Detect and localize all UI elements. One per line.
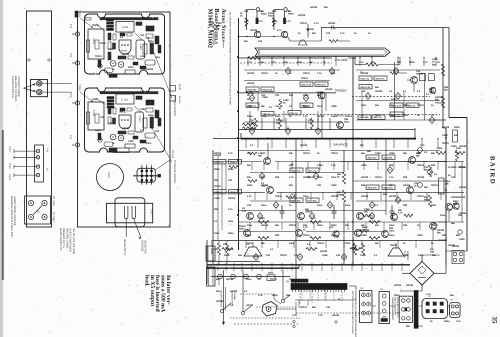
- comb connector: [291, 279, 308, 282]
- transistor TR118 mid: [337, 122, 344, 129]
- svg-text:R118 56k: R118 56k: [392, 113, 402, 116]
- svg-text:R316: R316: [303, 105, 309, 108]
- rail 210: [238, 210, 296, 212]
- parts board B right: [146, 100, 154, 105]
- svg-text:GP230: GP230: [435, 96, 443, 99]
- svg-text:GP230: GP230: [214, 152, 222, 155]
- resistor chips board A row2: [118, 56, 126, 59]
- svg-text:GP230: GP230: [437, 229, 445, 232]
- svg-text:R316: R316: [437, 147, 443, 150]
- svg-text:R316: R316: [100, 42, 106, 45]
- svg-text:C308: C308: [389, 152, 395, 155]
- svg-text:100u: 100u: [289, 242, 295, 245]
- svg-text:R30: R30: [272, 10, 277, 13]
- resistor boxes mid 198s: [290, 198, 303, 202]
- chips board B cluster1: [108, 107, 111, 114]
- svg-text:C31: C31: [266, 254, 271, 257]
- svg-text:GP230: GP230: [389, 195, 397, 198]
- DIN socket housing: [31, 80, 48, 97]
- svg-text:R321 1k: R321 1k: [408, 104, 417, 107]
- svg-text:100u: 100u: [317, 204, 323, 207]
- svg-text:4.7k: 4.7k: [286, 20, 291, 23]
- svg-text:GP230: GP230: [226, 278, 234, 281]
- mains pin P105: [28, 200, 33, 205]
- svg-text:C308: C308: [258, 10, 264, 13]
- svg-text:C310 .01: C310 .01: [361, 77, 370, 80]
- right margin vertical resistors: [428, 165, 431, 177]
- svg-text:TK43: TK43: [8, 174, 11, 180]
- svg-text:100u: 100u: [331, 176, 337, 179]
- balance heavy bus: [241, 138, 415, 140]
- svg-text:4.7k: 4.7k: [426, 293, 431, 296]
- svg-text:GP230: GP230: [261, 184, 269, 187]
- driver transistor TR326: [355, 230, 362, 237]
- svg-text:TREBLE: TREBLE: [335, 89, 347, 93]
- svg-text:C308: C308: [453, 203, 459, 206]
- driver transistor TR327: [391, 214, 398, 221]
- svg-text:GP230: GP230: [303, 176, 311, 179]
- svg-text:GP230: GP230: [246, 304, 254, 307]
- bus stub comb: [217, 266, 219, 271]
- transistor TR116: [281, 31, 287, 37]
- printed board B outline: [85, 88, 165, 152]
- rail 181: [353, 180, 446, 182]
- svg-text:4.7k: 4.7k: [318, 314, 323, 317]
- board B top edge band: [100, 92, 158, 94]
- capacitor can C101 on board A: [88, 29, 104, 59]
- svg-text:100u: 100u: [418, 254, 424, 257]
- rail 120 right: [356, 119, 446, 121]
- svg-text:BALANCE CONTROL: BALANCE CONTROL: [14, 76, 17, 102]
- svg-text:C308: C308: [322, 254, 328, 257]
- svg-text:100u: 100u: [246, 278, 252, 281]
- mains pin P108: [42, 214, 47, 219]
- detector diode: [307, 24, 309, 38]
- svg-text:100u: 100u: [148, 114, 154, 117]
- svg-text:C308: C308: [108, 122, 114, 125]
- left margin small speaker a: [206, 246, 215, 261]
- svg-text:R30: R30: [403, 176, 408, 179]
- svg-text:TR311: TR311: [300, 22, 307, 25]
- transistor TR115: [254, 31, 260, 37]
- pre-bus vertical resistors right: [353, 243, 356, 255]
- svg-text:R316: R316: [275, 115, 281, 118]
- svg-text:TR311: TR311: [275, 195, 282, 198]
- svg-text:TR311: TR311: [92, 24, 99, 27]
- svg-text:100u: 100u: [247, 242, 253, 245]
- svg-text:C308: C308: [360, 254, 366, 257]
- svg-text:C130: C130: [92, 110, 95, 117]
- voltage selector plug: [137, 168, 155, 182]
- svg-text:R30: R30: [344, 118, 349, 121]
- strip dashed drops: [301, 292, 303, 302]
- tone network rail: [239, 129, 415, 131]
- svg-text:GP230: GP230: [375, 90, 383, 93]
- mains pin P106: [42, 200, 47, 205]
- svg-text:100u: 100u: [345, 204, 351, 207]
- treble zigzag: [246, 92, 254, 95]
- svg-text:C108: C108: [122, 26, 129, 29]
- rail 200: [250, 200, 296, 202]
- svg-text:R316 47k: R316 47k: [368, 186, 378, 189]
- svg-text:R316: R316: [444, 320, 450, 323]
- svg-text:TR311: TR311: [331, 234, 338, 237]
- leader board A to red socket label: [148, 38, 172, 98]
- bias boxes TR117: [420, 74, 426, 81]
- svg-text:TR311: TR311: [305, 211, 312, 214]
- resistor R117 top: [329, 40, 338, 43]
- bottom right corner cluster: [453, 252, 457, 256]
- stage rail 160: [213, 161, 262, 163]
- svg-text:4.7k: 4.7k: [286, 10, 291, 13]
- right column rail extensions: [446, 161, 464, 163]
- svg-text:C101: C101: [92, 38, 95, 45]
- dashed switch linkage rows: [256, 306, 296, 308]
- svg-text:TO P105: TO P105: [52, 196, 55, 206]
- svg-text:TK3(1): TK3(1): [78, 84, 81, 91]
- transistor cans board A: [110, 61, 116, 67]
- left margin resistor row 2: [213, 190, 226, 194]
- right stage resistors row: [366, 155, 379, 159]
- volume right resistor: [366, 63, 378, 66]
- vertical drop comb lower: [249, 222, 251, 230]
- dashed linkage horizontal: [240, 293, 274, 295]
- resistor R216 boxed: [300, 82, 313, 86]
- page binding edge: [0, 0, 3, 337]
- svg-text:C31: C31: [424, 166, 429, 169]
- svg-text:R30: R30: [389, 164, 394, 167]
- svg-text:TR311: TR311: [442, 142, 449, 145]
- svg-text:TR311: TR311: [417, 195, 424, 198]
- output cable banner: [255, 48, 390, 56]
- svg-text:TR311: TR311: [300, 306, 307, 309]
- svg-text:100u: 100u: [303, 195, 309, 198]
- svg-text:C308: C308: [331, 105, 337, 108]
- svg-text:4.7k: 4.7k: [423, 61, 428, 64]
- svg-text:C31: C31: [275, 94, 280, 97]
- svg-text:GP230: GP230: [122, 127, 130, 130]
- terminal TK1 on chassis edge: [75, 32, 79, 36]
- svg-text:C308: C308: [128, 140, 134, 143]
- svg-text:C 143: C 143: [121, 99, 128, 102]
- svg-text:100u: 100u: [431, 204, 437, 207]
- svg-text:R316: R316: [454, 126, 460, 129]
- svg-text:100u: 100u: [228, 248, 234, 251]
- svg-text:C31: C31: [242, 210, 247, 213]
- svg-text:4.7k: 4.7k: [216, 25, 221, 28]
- svg-text:GP230: GP230: [361, 176, 369, 179]
- pre-bus rail 261: [207, 260, 260, 262]
- svg-text:R316 47k: R316 47k: [317, 83, 327, 86]
- svg-text:TR311: TR311: [303, 152, 310, 155]
- svg-text:ON/OFF SWITCH: ON/OFF SWITCH: [220, 290, 223, 307]
- tone transistor TR203: [318, 92, 325, 99]
- svg-text:C31: C31: [326, 306, 331, 309]
- svg-text:SELECTOR: SELECTOR: [144, 240, 147, 254]
- svg-text:R214 2.2k: R214 2.2k: [361, 86, 371, 89]
- dial lamp 4: [257, 274, 262, 279]
- svg-text:R316: R316: [331, 224, 337, 227]
- board A top edge component band: [100, 18, 158, 20]
- left margin small speaker b: [207, 267, 216, 286]
- mid vertical wires right: [394, 62, 396, 120]
- vertical drop comb mid: [245, 139, 247, 148]
- lamp rail return: [289, 278, 291, 280]
- svg-text:TR311: TR311: [239, 225, 246, 228]
- svg-text:C308: C308: [92, 98, 98, 101]
- svg-text:CARRY MAINS VOLTAGE: CARRY MAINS VOLTAGE: [13, 196, 16, 226]
- bridge rectifier B30C: [410, 262, 434, 286]
- svg-text:GP230: GP230: [146, 68, 154, 71]
- svg-text:R30: R30: [431, 164, 436, 167]
- driver transistor TR322: [244, 230, 251, 237]
- svg-text:SPEAKER SOCKETS: SPEAKER SOCKETS: [396, 297, 399, 318]
- dial lamp 2: [231, 274, 236, 279]
- volume bus vertical: [352, 58, 354, 266]
- svg-text:C308: C308: [283, 99, 289, 102]
- svg-text:NEUTRAL LEADS: NEUTRAL LEADS: [65, 228, 68, 249]
- driver transistor TR328: [382, 231, 389, 238]
- svg-text:R316: R316: [228, 232, 234, 235]
- transistor TR313: [409, 157, 416, 164]
- svg-text:R316: R316: [228, 168, 234, 171]
- volume dashed rail: [240, 62, 332, 64]
- svg-text:C308: C308: [140, 108, 146, 111]
- svg-text:4.7k: 4.7k: [331, 164, 336, 167]
- svg-text:R30: R30: [352, 247, 357, 250]
- transformer winding slot right: [131, 206, 133, 217]
- svg-text:4.7k: 4.7k: [420, 144, 425, 147]
- pickup pin 4: [36, 173, 39, 176]
- svg-text:4.7k: 4.7k: [247, 61, 252, 64]
- wire pickup pin1 to TK lug: [14, 150, 36, 152]
- svg-text:C308: C308: [375, 152, 381, 155]
- svg-text:R316: R316: [394, 294, 400, 297]
- bass rail dashed: [264, 114, 440, 116]
- svg-text:100u: 100u: [456, 147, 462, 150]
- emitter resistors cluster b: [310, 221, 321, 224]
- svg-text:4.7k: 4.7k: [258, 20, 263, 23]
- svg-text:GP230: GP230: [230, 290, 238, 293]
- terminal TK3 on chassis edge: [75, 101, 79, 105]
- svg-text:C308: C308: [459, 238, 465, 241]
- svg-text:PU: PU: [46, 168, 49, 172]
- svg-text:35: 35: [491, 317, 498, 324]
- svg-text:VIA T.B. (ON VOLUME): VIA T.B. (ON VOLUME): [72, 228, 75, 254]
- svg-text:M1600, M1602: M1600, M1602: [206, 9, 213, 49]
- pre-bus vertical resistors left: [217, 243, 220, 255]
- svg-text:GP230: GP230: [328, 22, 336, 25]
- svg-text:4.7k: 4.7k: [258, 294, 263, 297]
- svg-text:100u: 100u: [308, 119, 314, 122]
- svg-text:4.7k: 4.7k: [247, 152, 252, 155]
- svg-text:TR311: TR311: [301, 77, 308, 80]
- svg-text:100u: 100u: [389, 234, 395, 237]
- wire to tone network: [288, 37, 291, 42]
- resistor R118 boxed: [246, 87, 259, 91]
- svg-text:R30: R30: [275, 176, 280, 179]
- chassis outline: [78, 12, 171, 227]
- rail 70: [244, 69, 340, 71]
- svg-text:GP230: GP230: [228, 197, 236, 200]
- selector plug pin columns: [141, 166, 143, 184]
- svg-text:100u: 100u: [317, 105, 323, 108]
- input coupling cluster C101a: [245, 9, 247, 30]
- connector X4: [379, 292, 390, 324]
- transformer winding slot left: [123, 206, 125, 217]
- HT heavy bus: [207, 264, 410, 266]
- svg-text:C31: C31: [326, 32, 331, 35]
- svg-text:4.7k: 4.7k: [398, 212, 403, 215]
- svg-text:BLACK: BLACK: [178, 96, 181, 104]
- svg-text:TK41: TK41: [8, 146, 11, 152]
- small parts board A bottom: [104, 68, 113, 73]
- svg-text:TK2: TK2: [69, 53, 72, 58]
- svg-text:LIVE TO SWITCHED: LIVE TO SWITCHED: [69, 228, 72, 252]
- svg-text:TR311: TR311: [303, 72, 310, 75]
- svg-text:TR311: TR311: [375, 176, 382, 179]
- transistor TR117: [411, 77, 418, 84]
- svg-text:4.7k: 4.7k: [359, 61, 364, 64]
- svg-text:C308: C308: [247, 105, 253, 108]
- svg-text:TR101: TR101: [121, 50, 129, 53]
- jumper wires board A: [96, 24, 104, 30]
- svg-text:R316: R316: [214, 168, 220, 171]
- right mid caps: [418, 148, 423, 153]
- svg-text:4.7k: 4.7k: [314, 22, 319, 25]
- svg-text:R316 47k: R316 47k: [292, 169, 302, 172]
- svg-text:100u: 100u: [344, 121, 350, 124]
- svg-text:100u: 100u: [268, 272, 274, 275]
- svg-text:GP230: GP230: [442, 126, 450, 129]
- svg-text:C31: C31: [317, 184, 322, 187]
- svg-text:R214 2.2k: R214 2.2k: [392, 104, 402, 107]
- svg-text:GP230: GP230: [216, 300, 224, 303]
- svg-text:TO BLACK SOCKET: TO BLACK SOCKET: [173, 160, 176, 184]
- svg-text:TR311: TR311: [303, 234, 310, 237]
- parts board B bottom: [104, 142, 113, 147]
- svg-text:GP230: GP230: [122, 53, 130, 56]
- emitter bus wire: [239, 36, 255, 38]
- svg-text:100u: 100u: [440, 214, 446, 217]
- DIN socket lower jack: [37, 89, 42, 94]
- svg-text:C308: C308: [361, 164, 367, 167]
- svg-text:4.7k: 4.7k: [331, 28, 336, 31]
- svg-text:4.7k: 4.7k: [456, 320, 461, 323]
- svg-text:4.7k: 4.7k: [228, 208, 233, 211]
- svg-text:100u: 100u: [261, 204, 267, 207]
- svg-text:C31: C31: [100, 116, 105, 119]
- driver transistor TR321: [247, 213, 254, 220]
- svg-text:TR311: TR311: [289, 224, 296, 227]
- lower dashed rail: [296, 312, 400, 314]
- svg-text:GP230: GP230: [250, 29, 258, 32]
- resistor R218 boxed: [300, 103, 313, 107]
- resistor R119 boxed: [261, 87, 274, 91]
- svg-text:TK3: TK3: [69, 93, 72, 98]
- svg-text:GP230: GP230: [394, 284, 402, 287]
- svg-text:R118 56k: R118 56k: [308, 199, 318, 202]
- svg-text:BATTERY LEADS THIS SIDE OF CHA: BATTERY LEADS THIS SIDE OF CHASSIS: [351, 291, 354, 334]
- svg-text:BLUE: BLUE: [178, 84, 181, 90]
- strip feed wires: [295, 280, 297, 284]
- svg-text:C31: C31: [336, 254, 341, 257]
- svg-text:TR311: TR311: [317, 242, 324, 245]
- svg-text:TK4: TK4: [46, 148, 49, 153]
- wire pickup pin4 to TK lug: [14, 174, 36, 176]
- svg-text:C308: C308: [317, 164, 323, 167]
- svg-text:R30: R30: [331, 72, 336, 75]
- tone zigzag pair: [243, 123, 256, 126]
- svg-text:R30: R30: [244, 10, 249, 13]
- svg-text:4.7k: 4.7k: [340, 32, 345, 35]
- svg-text:TR311: TR311: [390, 244, 397, 247]
- svg-text:C31: C31: [228, 179, 233, 182]
- boxed resistors right column: [390, 103, 403, 107]
- svg-text:TO RED SOCKET: TO RED SOCKET: [173, 96, 176, 117]
- svg-text:T.A.: T.A.: [150, 209, 154, 214]
- rail 150: [238, 150, 310, 152]
- fuse box on lamp rail: [267, 275, 275, 281]
- page border right elbow: [449, 117, 467, 119]
- capacitor C143 board B: [116, 94, 134, 104]
- svg-text:R316: R316: [128, 66, 134, 69]
- svg-text:100u: 100u: [345, 242, 351, 245]
- svg-text:GP230: GP230: [416, 73, 424, 76]
- speaker connector X1: [422, 299, 448, 319]
- svg-text:4.7k: 4.7k: [277, 29, 282, 32]
- dial lamp 1: [218, 274, 223, 279]
- svg-text:C31: C31: [271, 61, 276, 64]
- svg-text:C310 .01: C310 .01: [308, 169, 317, 172]
- terminal TK4 on chassis edge: [75, 143, 79, 147]
- left margin resistor row 1: [213, 160, 226, 164]
- capacitor C140 board B: [135, 112, 144, 132]
- svg-text:T8: T8: [286, 280, 290, 284]
- svg-text:R30: R30: [389, 227, 394, 230]
- on off switch drop: [223, 270, 225, 322]
- extra chips board A: [155, 36, 159, 44]
- svg-text:C308: C308: [140, 55, 146, 58]
- svg-text:R30: R30: [404, 254, 409, 257]
- driver transistor TR325: [357, 213, 364, 220]
- svg-text:R321 1k: R321 1k: [263, 113, 272, 116]
- svg-text:TR311: TR311: [331, 152, 338, 155]
- electrolytic C systems board A right: [146, 26, 154, 31]
- svg-text:4.7k: 4.7k: [317, 72, 322, 75]
- svg-text:ALL VOLTAGES TAKEN WITH AVO MO: ALL VOLTAGES TAKEN WITH AVO MODEL 8 AND …: [229, 12, 232, 105]
- svg-text:100u: 100u: [146, 142, 152, 145]
- emitter resistors cluster c: [369, 221, 380, 224]
- svg-text:GP230: GP230: [247, 72, 255, 75]
- svg-text:R316: R316: [451, 166, 457, 169]
- svg-text:WARNING NOTE PINS P105 & P107: WARNING NOTE PINS P105 & P107: [10, 196, 13, 238]
- svg-text:GP230: GP230: [331, 195, 339, 198]
- stage rail 192: [213, 191, 265, 193]
- boxed resistors mid column: [261, 112, 274, 116]
- svg-text:R316: R316: [288, 13, 294, 16]
- svg-text:R118 56k: R118 56k: [384, 156, 394, 159]
- svg-text:100u: 100u: [389, 224, 395, 227]
- pickup pin 3: [36, 165, 39, 168]
- stage rail 192 extension: [340, 191, 446, 193]
- svg-text:C31: C31: [155, 130, 160, 133]
- resistor R316 boxed: [359, 76, 372, 80]
- svg-text:4.7k: 4.7k: [292, 314, 297, 317]
- treble bass verticals: [257, 92, 259, 111]
- svg-text:C31: C31: [258, 40, 263, 43]
- leader board B to black socket label: [152, 128, 172, 162]
